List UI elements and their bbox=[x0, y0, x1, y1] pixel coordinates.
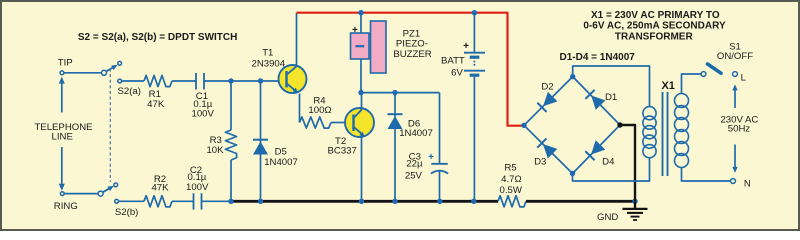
svg-text:D5: D5 bbox=[275, 147, 287, 158]
svg-text:X1 = 230V AC PRIMARY TO: X1 = 230V AC PRIMARY TO bbox=[591, 10, 720, 21]
svg-text:PIEZO-: PIEZO- bbox=[396, 39, 428, 50]
svg-text:10K: 10K bbox=[206, 145, 224, 156]
svg-text:ON/OFF: ON/OFF bbox=[717, 51, 753, 62]
svg-text:+: + bbox=[352, 25, 358, 36]
svg-text:4.7Ω: 4.7Ω bbox=[501, 174, 522, 185]
svg-text:S2 = S2(a), S2(b) = DPDT SWITC: S2 = S2(a), S2(b) = DPDT SWITCH bbox=[78, 32, 237, 43]
svg-text:D4: D4 bbox=[602, 156, 615, 167]
svg-text:RING: RING bbox=[54, 201, 78, 212]
svg-text:S2(a): S2(a) bbox=[118, 86, 141, 97]
svg-text:D3: D3 bbox=[534, 156, 546, 167]
svg-text:D1: D1 bbox=[605, 92, 617, 103]
svg-text:47K: 47K bbox=[151, 182, 169, 193]
svg-text:S2(b): S2(b) bbox=[115, 207, 138, 218]
svg-text:X1: X1 bbox=[661, 80, 674, 92]
svg-text:R5: R5 bbox=[504, 163, 516, 174]
svg-text:0-6V AC, 250mA SECONDARY: 0-6V AC, 250mA SECONDARY bbox=[583, 21, 726, 32]
svg-text:TIP: TIP bbox=[58, 57, 73, 68]
svg-text:100V: 100V bbox=[186, 182, 209, 193]
svg-text:BATT: BATT bbox=[441, 56, 465, 67]
svg-text:1N4007: 1N4007 bbox=[264, 157, 298, 168]
svg-text:D1-D4 = 1N4007: D1-D4 = 1N4007 bbox=[560, 52, 636, 63]
svg-text:25V: 25V bbox=[405, 170, 423, 181]
svg-text:T1: T1 bbox=[262, 47, 273, 58]
svg-text:L: L bbox=[741, 72, 747, 83]
svg-text:50Hz: 50Hz bbox=[728, 124, 751, 135]
svg-text:100Ω: 100Ω bbox=[308, 105, 331, 116]
svg-text:N: N bbox=[744, 179, 751, 190]
svg-text:BUZZER: BUZZER bbox=[393, 49, 431, 60]
svg-text:+: + bbox=[463, 41, 469, 52]
svg-text:R3: R3 bbox=[210, 135, 222, 146]
svg-text:100V: 100V bbox=[191, 109, 214, 120]
svg-text:TRANSFORMER: TRANSFORMER bbox=[615, 32, 694, 43]
svg-text:GND: GND bbox=[597, 212, 618, 223]
svg-text:D2: D2 bbox=[541, 82, 553, 93]
svg-text:+: + bbox=[428, 152, 434, 163]
svg-text:0.5W: 0.5W bbox=[499, 185, 522, 196]
svg-text:LINE: LINE bbox=[52, 131, 73, 142]
svg-text:22µ: 22µ bbox=[406, 159, 423, 170]
svg-text:2N3904: 2N3904 bbox=[251, 58, 285, 69]
svg-text:BC337: BC337 bbox=[328, 146, 357, 157]
svg-text:6V: 6V bbox=[451, 68, 463, 79]
svg-text:1N4007: 1N4007 bbox=[399, 128, 433, 139]
svg-text:47K: 47K bbox=[147, 99, 165, 110]
